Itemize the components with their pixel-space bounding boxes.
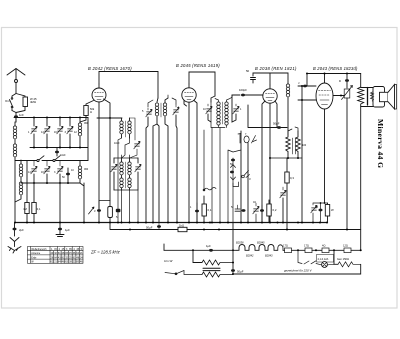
coil L2 [15,160,23,202]
coil L3 [78,118,81,148]
switch S5 [242,171,251,182]
capacitor C30 [242,209,246,212]
trimmer arrow [89,207,97,214]
IF transformer T2 secondary [126,158,132,190]
wire grid leak net [270,127,302,158]
power rail [164,249,237,251]
dropper branch [193,250,202,262]
svg-text:Wellenbereich: Wellenbereich [31,248,47,251]
trimmer C33 V4 cathode [311,203,317,223]
tube V4 B2043 [316,83,333,109]
svg-text:0,2: 0,2 [273,208,277,212]
main bus [15,222,328,224]
svg-text:0,1: 0,1 [208,208,212,212]
IF transformer T2 primary [120,158,123,190]
trimmer C11b [130,118,141,158]
node dots dropper [232,262,234,276]
svg-text:0,1: 0,1 [37,207,41,211]
wire top rail left block [14,118,88,123]
resistor R4 50k [80,101,95,123]
trimmer C4 [57,118,63,148]
trimmer C14 [173,104,179,223]
node dots power [297,249,362,251]
switch S1 antenna [10,94,17,111]
capacitor C39 paper [108,201,113,223]
ground capacitor C26 1uF [56,223,70,237]
capacitor C29 [231,205,240,211]
svg-text:12Ω: 12Ω [343,244,348,248]
wire power rail left end [163,244,165,250]
svg-text:B2045: B2045 [257,241,265,245]
svg-text:0,3: 0,3 [290,176,294,180]
coil L4 [78,161,81,184]
svg-text:4,1-0,12A: 4,1-0,12A [318,258,329,261]
resistor R16 [334,244,361,253]
svg-text:B2042: B2042 [246,254,254,258]
tube V1 B2042 [92,84,106,102]
IF transformer T1 primary [120,118,123,138]
capacitor C28 [195,203,199,223]
coil L1 antenna [13,122,16,223]
wire V4 plate [333,95,344,97]
svg-text:B 2038 (REN 1821): B 2038 (REN 1821) [255,66,297,71]
svg-text:50μF: 50μF [237,270,244,274]
right rail [360,74,362,88]
potentiometer P1 [238,131,257,223]
svg-text:100: 100 [302,144,307,147]
resistor R11 [267,200,277,223]
svg-text:B 2042 (RENS 1670): B 2042 (RENS 1670) [88,66,132,71]
rail2 [110,223,361,251]
wire grid cap V1 [99,72,158,99]
trimmer C8 [44,161,50,184]
choke L7 [270,73,290,135]
IF transformer T3 primary [211,96,225,128]
trimmer C13 [146,108,152,223]
svg-text:B 2045 (RENS 1619): B 2045 (RENS 1619) [176,63,220,68]
svg-text:gezeichnet für 220 V: gezeichnet für 220 V [284,269,313,273]
trimmer C2 [31,118,37,148]
resistor R18 zigzag [202,260,233,265]
ground capacitor C25 2uF [13,223,25,237]
resistor R9 1k [178,224,187,232]
svg-text:Antenne: Antenne [31,252,41,255]
heater chain V1-V4 [236,241,283,258]
trimmer C3 [44,118,50,148]
resistor R7 [285,158,295,230]
wire osc block [148,95,176,107]
trimmer C5 [67,118,73,148]
capacitor C35 1uF [206,244,213,252]
capacitor C23 [339,74,349,89]
wire mid rail [30,118,88,161]
pickup squiggle [203,188,216,191]
trimmer C16 [232,95,239,122]
svg-text:B2038: B2038 [236,241,244,245]
mains switch S4 [164,259,202,275]
lamp box [317,255,334,263]
resistor R17 Gen [334,250,361,266]
power bottom loop [233,264,361,274]
svg-text:Erde: Erde [31,256,37,259]
svg-text:D: D [339,79,341,83]
capacitor C32 [260,205,264,223]
IF transformer T1 secondary [126,118,132,138]
wire V4 top rail [307,74,361,84]
wire cathode column [59,183,61,223]
svg-text:2μF: 2μF [19,228,24,232]
capacitor C6 [55,148,59,157]
node power junction [192,249,234,251]
label misc mid [114,106,307,209]
svg-text:50μF: 50μF [146,226,153,230]
oscillator coil L6 [161,98,168,223]
svg-text:B 2043 (RENS 1823d): B 2043 (RENS 1823d) [313,66,358,71]
wire V3 cathode [269,103,271,222]
node dots top rail [33,117,81,119]
resistor R3 [32,183,41,223]
svg-text:Gen 150Ω: Gen 150Ω [337,257,349,261]
output transformer T4 [361,87,385,108]
wire V3 pins down [262,101,277,223]
capacitor C10 [66,168,70,183]
svg-text:Om: Om [5,99,10,103]
switch S2 band [15,156,88,162]
arrester column [230,158,239,223]
trimmer C12 [135,158,141,190]
svg-text:Ω: Ω [90,110,92,114]
node dots bus [14,222,328,224]
capacitor C19 50uF [248,105,287,129]
capacitor C1 1nF [14,113,24,123]
resistor R14 [298,244,316,253]
tube V2 B2045 [182,84,196,102]
wire V4 cathode [324,109,326,203]
wire V4 cathode net [313,202,328,204]
wire grid cap V2 [189,72,215,96]
label Minerva [376,119,385,168]
svg-text:060: 060 [84,168,89,171]
switch S3 [298,250,316,264]
trimmer C11 [111,158,117,190]
capacitor C27 50uF [146,223,161,230]
capacitor C18 50pF [246,69,270,85]
svg-text:ZF = 128,5 kHz: ZF = 128,5 kHz [90,250,121,255]
capacitor C38 [97,201,110,212]
svg-text:1nF: 1nF [19,113,24,117]
wire T2 top/bottom [114,155,138,223]
trimmer C31 [253,203,259,223]
tube V3 B2038 [263,85,277,103]
resistor R1 4MΩ [12,94,37,113]
resistor R2 [23,161,29,223]
table [28,247,84,264]
svg-text:060: 060 [84,122,89,125]
trimmer C9 [57,161,63,184]
resistor R5 zigzag [286,135,290,158]
capacitor C36 50uF [231,269,244,273]
antenna [7,69,25,94]
capacitor C17 100pF [232,88,263,96]
resistor R6 zigzag [296,131,300,158]
wire V1 cathode [98,102,100,223]
wire bottom rail left block [15,161,80,184]
wire L3 column down [80,183,84,223]
fuse F1 [277,245,284,251]
wire x233 column [232,223,234,275]
wire T3 columns down [212,128,241,223]
resistor R10 [202,196,212,223]
svg-text:50: 50 [315,205,319,209]
resistor R12 [325,203,334,223]
IF transformer T3 secondary [223,95,233,128]
capacitor C24 plate [367,88,369,106]
rheostat P2 [342,86,353,230]
svg-text:17Ω: 17Ω [283,244,288,248]
svg-text:1μF: 1μF [206,244,211,248]
label trimmer values [28,122,89,179]
svg-text:1kΩ: 1kΩ [179,224,184,228]
svg-text:10nF: 10nF [60,154,66,157]
svg-text:50: 50 [246,69,250,73]
oscillator coil L5 [153,98,159,223]
capacitor C40 [116,209,121,219]
svg-text:4MΩ: 4MΩ [30,100,36,104]
svg-text:50μF: 50μF [273,122,280,126]
capacitor C37 plates [203,268,220,270]
svg-text:Um W: Um W [164,259,173,263]
svg-text:1M: 1M [23,207,27,211]
resistor R19 zigzag [202,272,233,277]
svg-text:10nF: 10nF [114,142,120,145]
trimmer C15 [206,104,212,122]
svg-text:100pF: 100pF [239,88,247,92]
resistor R13 [283,244,298,253]
speaker LS [380,85,397,110]
svg-text:W: W [331,208,334,212]
wire column x204 [203,130,205,189]
trimmer C21 [280,187,286,223]
ground earth symbol [8,238,21,254]
svg-text:4Ω: 4Ω [322,244,325,248]
svg-text:B2043: B2043 [265,254,273,258]
svg-text:17Ω: 17Ω [304,244,309,248]
capacitor C20 [293,138,296,154]
wire V2 cathode [184,101,189,223]
capacitor C34 [315,203,323,223]
capacitor C22 [298,74,316,88]
wire V1 screen [97,99,122,118]
wire T1 bottoms [118,138,130,223]
resistor R15 [316,244,334,253]
svg-text:1μF: 1μF [65,228,70,232]
resistor R8 zigzag vertical [358,87,364,230]
svg-text:Minerva 44 G: Minerva 44 G [376,119,385,168]
wire V2 aux [194,101,197,223]
trimmer C7 [31,161,37,184]
lamp [316,262,334,268]
wire V4 grid [298,86,316,223]
